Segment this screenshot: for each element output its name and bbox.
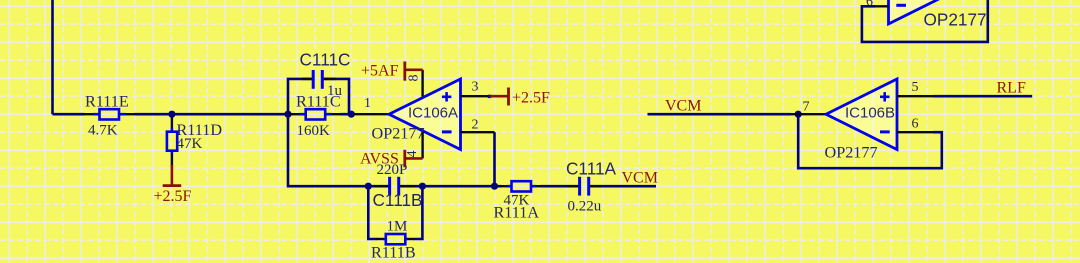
wire: main horizontal net to op-amp A output node <box>53 113 354 116</box>
wire: C111C feedback top loop <box>288 79 349 114</box>
svg-text:C111B: C111B <box>373 190 423 210</box>
resistor R111E <box>84 93 135 139</box>
svg-text:OP2177: OP2177 <box>372 125 425 143</box>
pin 7 input wire <box>791 113 826 115</box>
pin 8 (V+) <box>421 70 423 97</box>
node B junction (C111C left / feedback) <box>284 111 291 118</box>
wire: IC106B pin5 output to RLF <box>933 95 1032 98</box>
svg-text:R111B: R111B <box>371 244 416 262</box>
op-amp U2 IC106B <box>791 79 933 162</box>
svg-text:0.22u: 0.22u <box>568 199 602 215</box>
minus input marker <box>896 4 906 7</box>
resistor R111A <box>494 181 542 221</box>
svg-text:5: 5 <box>912 80 919 95</box>
plus input marker <box>880 92 890 101</box>
wire: R111A to C111A to VCM stub <box>495 185 657 188</box>
svg-text:R111C: R111C <box>296 93 341 111</box>
node E junction (R111B right) <box>419 183 426 190</box>
capacitor C111A <box>566 159 617 215</box>
pin 5 (+IN) <box>897 95 933 97</box>
op-amp U1 IC106A <box>353 70 494 159</box>
svg-text:VCM: VCM <box>622 170 658 187</box>
wire: VCM input stub to IC106B <box>648 113 792 116</box>
svg-text:1M: 1M <box>387 219 408 235</box>
svg-text:160K: 160K <box>297 123 331 139</box>
wire: pin2 riser to feedback rail <box>493 132 496 186</box>
node G junction (IC106B feedback tap) <box>795 111 802 118</box>
svg-text:R111E: R111E <box>85 93 129 111</box>
svg-text:C111A: C111A <box>566 159 617 179</box>
svg-text:1: 1 <box>364 96 371 111</box>
capacitor C111B <box>373 162 423 210</box>
resistor R111C <box>290 93 341 140</box>
svg-text:R111A: R111A <box>494 204 540 222</box>
pin 2 (-IN) <box>461 131 495 133</box>
power port AVSS <box>360 150 423 168</box>
svg-text:2: 2 <box>472 118 479 133</box>
svg-text:+2.5F: +2.5F <box>512 90 550 107</box>
power port +5AF <box>361 62 423 81</box>
svg-text:47K: 47K <box>177 136 203 152</box>
minus input marker <box>880 130 890 133</box>
node F junction (pin2 riser / R111A) <box>491 183 498 190</box>
wire: R111B lower loop <box>368 186 422 239</box>
svg-text:3: 3 <box>472 80 479 95</box>
svg-text:VCM: VCM <box>665 98 701 115</box>
pin 3 (+IN) <box>461 95 491 97</box>
svg-text:6: 6 <box>912 117 919 132</box>
svg-text:220P: 220P <box>377 162 408 178</box>
pin 6 (-IN) <box>897 131 933 133</box>
svg-text:+5AF: +5AF <box>361 63 399 80</box>
pin 1 output <box>353 113 389 115</box>
triangle body <box>389 79 461 150</box>
wire: top op-amp feedback loop <box>862 0 988 42</box>
svg-text:OP2177: OP2177 <box>924 10 987 30</box>
capacitor C111C <box>300 50 351 100</box>
svg-text:IC106B: IC106B <box>845 105 895 122</box>
wire: feedback bottom rail from node A to R111A node <box>288 114 495 186</box>
svg-text:RLF: RLF <box>997 80 1026 97</box>
wire: IC106B feedback loop <box>798 114 942 168</box>
minus input marker <box>442 130 452 133</box>
power port +2.5F (pin 3) <box>490 88 550 107</box>
triangle body (apex off-canvas) <box>889 0 960 24</box>
svg-text:+2.5F: +2.5F <box>154 188 192 205</box>
op-amp U3 top partial (OP2177) <box>866 0 987 30</box>
svg-text:OP2177: OP2177 <box>825 144 878 162</box>
resistor R111D <box>167 118 222 166</box>
svg-text:7: 7 <box>803 100 810 115</box>
node A junction (R111D tap) <box>168 111 175 118</box>
node C junction (op-amp A output) <box>348 111 355 118</box>
wire: left input vertical drop <box>51 0 54 114</box>
power port +2.5F (below R111D) <box>154 165 192 205</box>
svg-text:8: 8 <box>407 75 422 82</box>
svg-text:4: 4 <box>405 151 420 158</box>
pin 4 (V-) <box>421 132 423 158</box>
svg-text:4.7K: 4.7K <box>88 123 118 139</box>
triangle body <box>826 79 897 150</box>
svg-text:IC106A: IC106A <box>408 105 458 122</box>
pin 6 wire <box>875 5 889 7</box>
node D junction (R111B left) <box>365 183 372 190</box>
svg-text:6: 6 <box>866 0 873 10</box>
svg-text:C111C: C111C <box>300 50 351 70</box>
resistor R111B <box>371 219 416 262</box>
plus input marker <box>442 92 452 101</box>
